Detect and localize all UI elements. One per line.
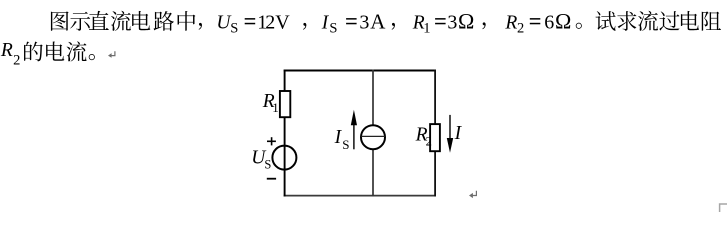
svg-text:S: S <box>230 21 238 37</box>
text line 1 Chinese: 图示直流电路中 <box>51 11 195 31</box>
equation U_S = 12V <box>216 11 290 36</box>
wire right branch <box>434 70 436 197</box>
equation I_S = 3A <box>321 9 387 36</box>
equation R_1 = 3Ohm <box>412 8 475 36</box>
svg-text:I: I <box>321 12 330 33</box>
svg-text:1: 1 <box>272 100 279 115</box>
text line 2: R_2 <box>0 40 20 69</box>
current source IS circle <box>361 125 385 149</box>
svg-text:R: R <box>0 40 13 61</box>
ideographic full stop line 2 <box>89 54 95 60</box>
svg-text:3A: 3A <box>359 9 386 33</box>
svg-text:1: 1 <box>423 21 430 37</box>
voltage source US circle <box>272 146 296 170</box>
fullwidth comma after 3Ohm <box>482 22 485 29</box>
svg-text:S: S <box>329 21 337 37</box>
paragraph return mark near circuit <box>471 191 477 196</box>
svg-text:S: S <box>342 137 349 152</box>
svg-text:6Ω: 6Ω <box>544 8 571 33</box>
equation R_2 = 6Ohm <box>504 8 571 36</box>
arrow IS (up) <box>351 110 357 150</box>
text line 2 Chinese: 的电流 <box>24 41 87 61</box>
wire top <box>284 70 436 72</box>
label R2 <box>415 125 432 149</box>
svg-text:I: I <box>334 127 343 148</box>
label R1 <box>262 91 279 115</box>
resistor R1 <box>280 91 290 117</box>
svg-text:2: 2 <box>13 52 20 68</box>
paragraph return mark line 2 <box>109 51 115 55</box>
wire middle branch <box>372 70 374 197</box>
fullwidth comma after 12V <box>303 23 306 30</box>
label I <box>454 123 463 144</box>
text line 1 Chinese: 试求流过电阻 <box>596 11 721 31</box>
svg-text:2: 2 <box>426 134 432 148</box>
svg-text:R: R <box>504 12 517 33</box>
resistor R2 <box>430 124 440 151</box>
svg-text:I: I <box>454 123 463 144</box>
svg-text:3Ω: 3Ω <box>447 8 474 33</box>
wire left branch <box>284 70 286 197</box>
minus sign <box>267 178 276 180</box>
fullwidth comma after 3A <box>392 23 395 30</box>
ideographic full stop after 6Ohm <box>576 23 582 29</box>
arrow I (down) <box>447 115 453 153</box>
plus sign <box>267 137 276 145</box>
page corner mark <box>720 204 727 212</box>
label IS <box>334 127 350 152</box>
label US <box>251 147 271 171</box>
svg-text:2: 2 <box>517 21 524 37</box>
fullwidth comma after 中 <box>199 23 202 30</box>
svg-text:12V: 12V <box>257 11 290 33</box>
svg-text:S: S <box>264 158 271 172</box>
wire bottom <box>284 195 436 197</box>
